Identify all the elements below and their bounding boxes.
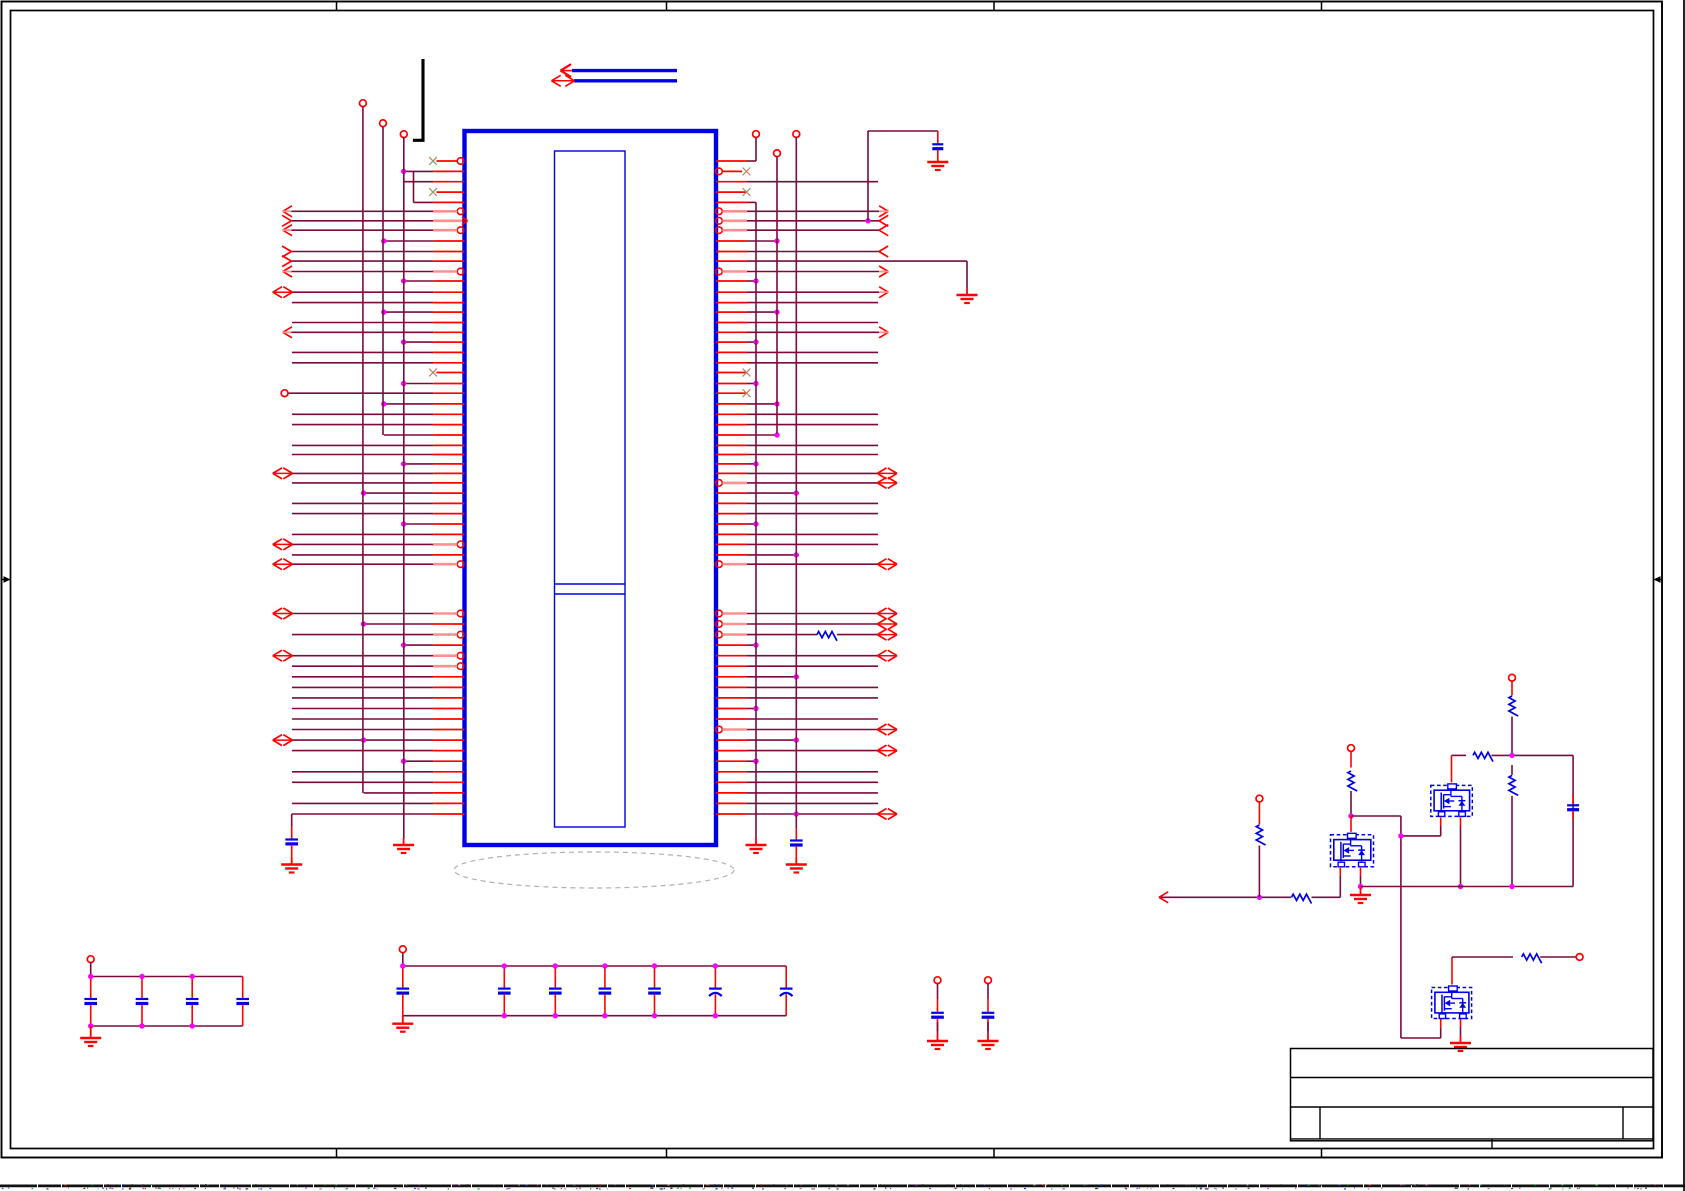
connector pin (right) y=782 [716,781,747,783]
connector pin (right) y=303 [716,302,747,304]
connector pin (left) y=814 [433,813,464,815]
connector pin (left) y=464 [433,463,464,465]
connector pin (right) y=261 [716,260,747,262]
connector pin (left) y=803 [433,802,464,804]
capacitor C (bottom x=988) [985,977,992,984]
connector pin (left) y=719 [433,718,464,720]
connector pin (right) y=645 [716,644,747,646]
wire Q3 drain [1451,957,1453,985]
connector pin (left) y=635 [457,631,464,638]
power node P1 [1509,674,1516,681]
connector pin (right) y=363 [716,362,747,364]
connector pin (left) y=221 [433,220,464,222]
net bus (right) B [774,150,781,157]
capacitor C (bank2 #7) [785,966,787,988]
connector pin (left) y=171 [433,170,464,172]
connector pin (right) y=464 [716,463,747,465]
connector pin (right) y=435 [716,434,747,436]
capacitor C (bank1 #1) [90,977,92,999]
connector pin (right) y=292 [716,291,747,293]
connector pin (right) y=332 [716,331,747,333]
capacitor C (right branch) [1572,795,1574,804]
connector J1 inner divider [555,583,626,585]
connector pin (left) y=384 [433,383,464,385]
connector pin (right) y=454 [716,454,747,456]
connector pin (right) y=677 [716,676,747,678]
connector J1 footprint ellipse [454,852,734,888]
wire Q2 gate [1339,868,1341,876]
connector pin (right) y=384 [716,383,747,385]
transistor Q1 [1431,785,1473,816]
connector pin (right) y=312 [716,311,747,313]
net bus (left) B [380,120,387,127]
connector pin (left) y=454 [433,454,464,456]
connector pin (left) y=292 [433,291,464,293]
wire gate-drive top [1452,754,1467,756]
connector pin (left) y=751 [433,750,464,752]
connector pin (left) y=544 [457,541,464,548]
connector pin (left) y=281 [433,280,464,282]
capacitor C (bank1 #2) [141,977,143,999]
connector pin (right) y=445 [716,444,747,446]
wire to Q3 [1401,1037,1441,1039]
capacitor C (bottom x=938) [934,977,941,984]
ground (bank1) [90,1026,92,1038]
connector pin (right) y=687 [716,686,747,688]
connector pin (left) y=393 [433,392,464,394]
connector pin (left) y=342 [433,341,464,343]
connector pin (right) y=666 [716,665,747,667]
connector pin (left) y=677 [433,676,464,678]
connector pin (right) y=404 [716,403,747,405]
power node + rails (bank1) [87,956,94,963]
connector pin (right) y=698 [716,697,747,699]
resistor R (Q2 gate) [1292,894,1312,903]
bus entry arrows (blue double lines) [572,69,677,72]
connector pin (right) y=635 [716,631,723,638]
capacitor C (bank2 #3) [554,966,556,988]
connector pin (left) y=782 [433,781,464,783]
ground (left bus) [403,838,405,845]
connector pin (right) y=161 [716,160,747,162]
connector pin (right) y=182 [716,181,747,183]
connector pin (left) y=352 [433,351,464,353]
wire Q2 drain [1350,816,1352,832]
wire P1 to node [1511,717,1513,756]
wire (left bottom to C?) [291,814,293,826]
connector pin (right) y=772 [716,771,747,773]
source rail [1361,886,1574,888]
wire Q1 pin3 [1460,817,1462,826]
ground (bottom cap x=988) [987,1034,989,1041]
title block [1291,1049,1654,1141]
wire Q2 source rail [1360,868,1362,876]
connector pin (left) y=414 [433,413,464,415]
node P2-Q2 [1348,813,1353,818]
capacitor C (bank2 #4) [604,966,606,988]
connector pin (right) y=751 [716,750,747,752]
connector pin (left) y=555 [433,554,464,556]
net bus (left) A [360,100,367,107]
transistor Q2 [1331,835,1374,867]
resistor R (P3) [1256,825,1265,845]
connector pin (left) y=192 no-connect [437,191,465,193]
connector pin (left) y=252 [433,251,464,253]
connector pin (right) y=192 no-connect [716,191,747,193]
connector pin (left) y=534 [433,533,464,535]
ground (right bus A) [755,838,757,845]
connector pin (left) y=372 no-connect [437,372,465,374]
connector pin (right) y=493 [716,492,747,494]
connector pin (left) y=698 [433,697,464,699]
connector pin (left) y=272 [457,268,464,275]
connector pin (right) y=221 [716,218,723,225]
connector pin (right) y=241 [716,240,747,242]
connector pin (left) y=241 [433,240,464,242]
ground (bank2) [402,1016,404,1024]
capacitor C (bank2 #6) [714,966,716,988]
connector pin (left) y=230 [457,227,464,234]
power node + rails (bank2) [399,946,406,953]
connector pin (right) y=656 [716,655,747,657]
power node P3 [1256,795,1263,802]
connector pin (left) y=514 [433,513,464,515]
ground (left bottom cap) [291,858,293,865]
connector pin (left) y=761 [433,760,464,762]
connector pin (right) y=534 [716,533,747,535]
connector J1 body [465,131,717,845]
wire Q3 gate-drive [1452,956,1513,958]
connector pin (left) y=435 [433,434,464,436]
connector pin (left) y=740 [433,739,464,741]
wire right branch [1572,755,1574,886]
connector pin (right) y=230 [716,227,723,234]
connector pin (right) y=414 [716,413,747,415]
capacitor C (bank2 #1) [402,966,404,988]
connector pin (right) y=524 [716,523,747,525]
connector pin (left) y=182 [433,181,464,183]
connector pin (right) y=281 [716,280,747,282]
connector pin (right) y=624 [716,621,723,628]
transistor Q3 [1432,988,1472,1019]
connector pin (left) y=483 [433,482,464,484]
connector pin (right) y=171 no-connect bubble [716,168,723,175]
connector pin (right) y=393 no-connect [716,392,747,394]
power node P2 [1348,745,1355,752]
wire Q3 source [1460,1019,1462,1027]
net bus (right) C [793,131,800,138]
connector pin (right) y=730 [716,726,723,733]
wire gate net + arrow [1159,896,1291,898]
net bus (right) A [755,202,757,838]
capacitor C (bank1 #4) [242,977,244,999]
connector pin (left) y=363 [433,362,464,364]
connector pin (right) y=483 [716,480,723,487]
net bus (left) C [400,131,407,138]
resistor R (P1) [1509,696,1518,716]
connector pin (left) y=503 [433,502,464,504]
connector pin (right) y=564 [716,561,723,568]
connector pin (left) y=161 no-connect bubble [437,160,458,162]
connector pin (right) y=793 [716,792,747,794]
connector pin (left) y=708 [433,708,464,710]
connector pin (right) y=342 [716,341,747,343]
connector pin (left) y=332 [433,331,464,333]
connector pin (left) y=687 [433,686,464,688]
connector pin (left) y=730 [433,729,464,731]
connector pin (right) y=372 no-connect [716,372,747,374]
connector pin (left) y=425 [433,424,464,426]
polarity mark (black) [413,59,423,140]
connector pin (right) y=352 [716,351,747,353]
resistor R (P2) [1348,771,1357,791]
capacitor C (bank2 #5) [654,966,656,988]
connector pin (left) y=211 [457,208,464,215]
connector pin (left) y=772 [433,771,464,773]
connector pin (right) y=473 [716,472,747,474]
connector pin (right) y=708 [716,708,747,710]
connector pin (right) y=272 [716,268,723,275]
connector pin (right) y=719 [716,718,747,720]
connector pin (right) y=322 [716,322,747,324]
connector pin (right) y=803 [716,802,747,804]
connector pin (right) y=503 [716,502,747,504]
capacitor C (bank1 #3) [191,977,193,999]
connector pin (right) y=425 [716,424,747,426]
connector pin (left) y=666 [457,663,464,670]
capacitor C (top right) [937,131,939,143]
ground (right bus cap) [795,858,797,865]
connector pin (left) y=261 [433,260,464,262]
connector pin (left) y=564 [457,561,464,568]
connector pin (right) y=614 [716,610,723,617]
ground (Q2) [1360,888,1362,895]
connector pin (left) y=624 [433,623,464,625]
connector pin (right) y=514 [716,513,747,515]
ground (Q3) [1460,1036,1462,1043]
connector pin (left) y=493 [433,492,464,494]
connector pin (right) y=544 [716,543,747,545]
connector pin (left) y=303 [433,302,464,304]
wire Q1 drain [1451,755,1453,782]
capacitor C (bank2 #2) [503,966,505,988]
connector pin (right) y=202 [716,201,747,203]
connector pin (left) y=322 [433,322,464,324]
connector pin (left) y=445 [433,444,464,446]
ground (bottom cap x=938) [937,1034,939,1041]
connector pin (left) y=312 [433,311,464,313]
connector pin (right) y=555 [716,554,747,556]
connector pin (left) y=793 [433,792,464,794]
capacitor C (left bottom) [291,826,293,839]
capacitor C (right bus) [795,828,797,840]
connector pin (right) y=761 [716,760,747,762]
connector pin (left) y=645 [433,644,464,646]
connector pin (right) y=740 [716,739,747,741]
connector pin (left) y=614 [457,610,464,617]
connector pin (left) y=404 [433,403,464,405]
connector pin (left) y=473 [433,472,464,474]
ground (top right cap) [937,161,939,163]
connector pin (right) y=252 [716,251,747,253]
wire Q1 source [1440,817,1442,826]
connector J1 inner outline [555,151,626,827]
connector pin (left) y=524 [433,523,464,525]
connector pin (left) y=656 [457,652,464,659]
connector pin (left) y=202 [433,201,464,203]
connector pin (right) y=814 [716,813,747,815]
resistor R (pulldown mid) [1509,775,1518,795]
connector pin (right) y=211 [716,208,723,215]
